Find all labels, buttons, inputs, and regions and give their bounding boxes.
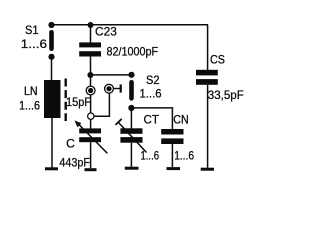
inductor LN body <box>44 80 61 118</box>
wire CS branch vertical down from bus corner <box>207 25 209 71</box>
plug (open circle) <box>88 113 94 119</box>
svg-text:CT: CT <box>144 113 160 127</box>
svg-text:82/1000pF: 82/1000pF <box>107 45 159 59</box>
wire CS to ground <box>207 85 209 168</box>
svg-text:1...6: 1...6 <box>19 99 40 113</box>
svg-text:CN: CN <box>173 112 188 126</box>
svg-text:S1: S1 <box>25 23 39 37</box>
node S1 top junction <box>48 22 54 28</box>
wire plug branch to socket 2 <box>94 93 109 116</box>
wire plug to capacitor C <box>90 120 92 129</box>
ground under CT <box>125 167 139 170</box>
socket terminal 2 <box>105 84 114 93</box>
ground under LN <box>45 167 58 170</box>
capacitor CS plates <box>196 70 218 76</box>
wire S2 to CN branch <box>131 108 172 129</box>
wire socket 1 to plug circle <box>90 95 92 113</box>
svg-text:1...6: 1...6 <box>174 148 194 162</box>
capacitor C23 plates <box>79 42 101 47</box>
wire bus to C23 <box>90 25 92 43</box>
wire S1 to LN <box>51 57 53 81</box>
wire C23 to socket 1 <box>90 57 92 87</box>
wire LN to ground <box>51 118 53 168</box>
variable capacitor C arrow <box>78 124 107 153</box>
switch S1 bar <box>49 32 54 49</box>
wire S2 to CT <box>130 108 132 129</box>
wire C to ground <box>90 142 92 168</box>
svg-text:C: C <box>66 137 75 151</box>
svg-text:1...6: 1...6 <box>141 148 160 162</box>
wire top bus from S1 to CS corner <box>52 24 209 26</box>
node S1 bottom contact <box>48 54 54 60</box>
svg-text:LN: LN <box>24 84 38 98</box>
svg-text:443pF: 443pF <box>59 155 90 169</box>
variable capacitor C plates <box>79 128 101 133</box>
ground under CS <box>201 168 214 171</box>
inductor LN adjustable core (dashed) <box>64 79 66 122</box>
node C23 tap on bus <box>88 22 94 28</box>
ground under CN <box>167 167 181 170</box>
svg-text:CS: CS <box>210 53 225 67</box>
wire junction to S2 <box>90 74 131 76</box>
svg-text:33,5pF: 33,5pF <box>208 88 244 102</box>
capacitor CN plates <box>161 129 183 135</box>
node S2 top contact <box>128 72 134 78</box>
trimmer capacitor CT plates <box>120 128 142 134</box>
wire CN to ground <box>171 144 173 167</box>
svg-text:1...6: 1...6 <box>21 37 48 51</box>
svg-text:S2: S2 <box>146 73 160 87</box>
trimmer capacitor CT adjuster <box>118 122 147 153</box>
node S2 bottom contact <box>128 105 134 111</box>
wire CT to ground <box>130 143 132 167</box>
socket terminal 1 <box>86 86 95 95</box>
plug tip T-bar at socket 2 <box>114 88 120 90</box>
ground under C <box>85 168 97 171</box>
svg-text:C23: C23 <box>95 25 117 39</box>
switch S2 bar <box>129 82 134 98</box>
svg-text:1...6: 1...6 <box>140 87 162 101</box>
node junction to S2 feed <box>87 72 93 78</box>
svg-text:15pF: 15pF <box>66 95 91 109</box>
